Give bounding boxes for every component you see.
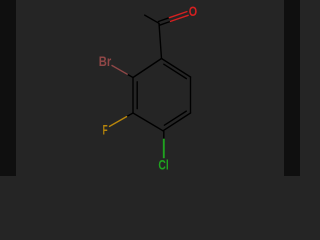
- carbonyl C=O double bond red halves: [169, 12, 188, 22]
- svg-text:Br: Br: [99, 53, 112, 69]
- svg-text:O: O: [189, 3, 197, 19]
- bond to Cl colored half: [163, 139, 165, 159]
- wire ring edge BR-B: [163, 113, 191, 131]
- svg-text:F: F: [103, 122, 108, 138]
- wire inner double bond on left edge: [136, 82, 138, 109]
- bond BL to F black half: [127, 113, 133, 117]
- wire ring edge B-BL: [133, 113, 163, 131]
- wire ring edge BL-TL: [132, 78, 134, 114]
- wire ring edge T-TR: [162, 59, 191, 78]
- bond to F colored half: [110, 117, 127, 127]
- svg-text:Cl: Cl: [158, 156, 168, 172]
- benzene ring outer bonds: [133, 15, 191, 131]
- bond TL to Br black half: [127, 74, 133, 77]
- wire inner double bond on edge B-BR: [164, 111, 186, 125]
- bond to Br colored half: [112, 66, 127, 75]
- wire inner double bond on edge T-TR: [164, 64, 187, 78]
- carbonyl C=O double bond black halves: [158, 18, 170, 26]
- wire ring edge TR-BR: [190, 77, 192, 113]
- left dark margin bar: [0, 0, 16, 176]
- bond B to Cl black half: [163, 131, 165, 139]
- right dark margin bar: [284, 0, 300, 176]
- wire aldehyde H stub: [145, 15, 159, 23]
- wire bond ring T to aldehyde carbon: [159, 23, 162, 58]
- wire ring edge TL-T: [133, 59, 162, 78]
